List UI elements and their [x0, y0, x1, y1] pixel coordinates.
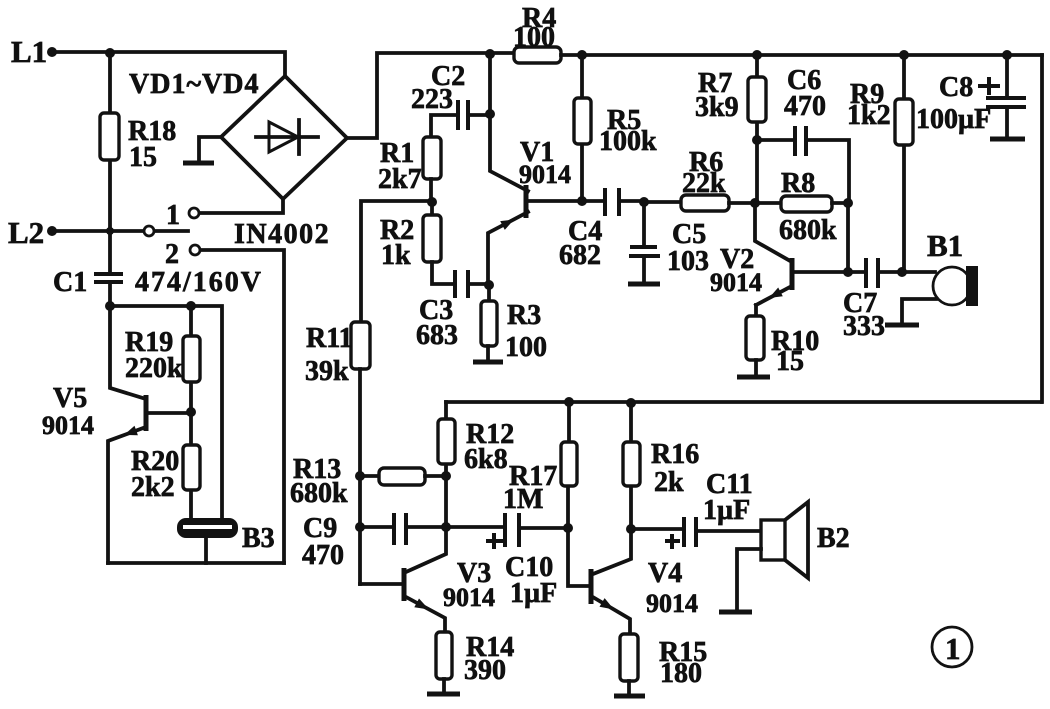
transistor V3	[360, 527, 446, 632]
svg-text:2k2: 2k2	[131, 472, 175, 503]
svg-text:B2: B2	[817, 523, 850, 554]
svg-text:1µF: 1µF	[703, 495, 750, 526]
node L2 terminal	[47, 226, 143, 236]
svg-text:IN4002: IN4002	[234, 219, 330, 250]
svg-text:V4: V4	[648, 558, 682, 589]
capacitor C6	[757, 126, 849, 203]
svg-text:683: 683	[416, 320, 458, 351]
svg-text:100k: 100k	[599, 126, 657, 157]
svg-text:680k: 680k	[290, 478, 348, 509]
svg-text:L2: L2	[8, 215, 44, 250]
svg-text:1k: 1k	[381, 240, 411, 271]
resistor R5	[574, 55, 591, 206]
resistor R19	[183, 306, 200, 417]
resistor R17	[561, 402, 577, 528]
svg-text:470: 470	[302, 540, 344, 571]
svg-text:100: 100	[513, 22, 555, 53]
bridge rectifier VD1~VD4	[221, 76, 347, 199]
wire R1 node to R11	[361, 201, 432, 322]
svg-text:682: 682	[559, 240, 601, 271]
svg-text:6k8: 6k8	[464, 444, 508, 475]
microphone B1	[885, 266, 978, 325]
resistor R12	[438, 402, 455, 481]
svg-text:9014: 9014	[646, 589, 698, 618]
svg-text:15: 15	[776, 346, 804, 377]
svg-text:3k9: 3k9	[695, 92, 739, 123]
svg-text:2k7: 2k7	[378, 164, 422, 195]
svg-text:9014: 9014	[443, 583, 495, 612]
resistor R8	[755, 196, 853, 272]
svg-text:L1: L1	[11, 34, 47, 69]
resistor R18	[100, 53, 119, 272]
wire right border	[1040, 55, 1044, 402]
svg-text:333: 333	[843, 311, 885, 342]
svg-text:2: 2	[165, 239, 179, 270]
svg-text:220k: 220k	[125, 353, 183, 384]
svg-text:15: 15	[129, 142, 157, 173]
svg-text:39k: 39k	[305, 356, 349, 387]
svg-text:22k: 22k	[682, 168, 726, 199]
svg-text:VD1~VD4: VD1~VD4	[129, 69, 259, 100]
resistor R6	[644, 195, 760, 211]
resistor R10	[737, 305, 770, 377]
svg-text:V5: V5	[53, 383, 87, 414]
svg-text:103: 103	[667, 246, 709, 277]
svg-text:R11: R11	[306, 323, 353, 354]
wire bridge left stub to ground	[183, 137, 221, 163]
svg-text:100µF: 100µF	[916, 104, 991, 135]
capacitor C8	[978, 55, 1026, 139]
switch contact 1	[189, 199, 283, 218]
svg-text:R8: R8	[781, 168, 815, 199]
transistor V1	[488, 185, 582, 285]
svg-text:100: 100	[505, 332, 547, 363]
svg-text:680k: 680k	[779, 215, 837, 246]
transistor V5	[108, 306, 191, 563]
resistor R16	[623, 403, 640, 534]
svg-text:223: 223	[411, 84, 453, 115]
transistor V4	[568, 528, 631, 634]
switch contact 2	[190, 245, 284, 563]
capacitor C4	[582, 188, 649, 216]
svg-text:474/160V: 474/160V	[135, 267, 263, 298]
svg-text:1M: 1M	[503, 484, 543, 515]
speaker B2	[719, 502, 808, 612]
svg-text:180: 180	[660, 658, 702, 689]
svg-text:390: 390	[464, 655, 506, 686]
capacitor C10	[446, 513, 573, 549]
svg-text:1k2: 1k2	[847, 100, 891, 131]
wire bottom rail left section	[108, 561, 284, 565]
svg-text:1: 1	[945, 631, 961, 666]
svg-text:R16: R16	[651, 439, 699, 470]
wire node to B3 right	[110, 301, 222, 518]
resistor R11	[351, 322, 370, 584]
svg-text:9014: 9014	[519, 160, 571, 189]
wire bridge output to top rail	[347, 53, 514, 138]
transistor V2	[755, 203, 853, 305]
wire collector feed V1	[490, 54, 528, 191]
svg-text:C1: C1	[53, 267, 87, 298]
capacitor C3	[455, 270, 494, 298]
wire lower supply rail	[446, 397, 1041, 408]
svg-text:9014: 9014	[42, 411, 94, 440]
wire R12 node to C9 node	[444, 476, 448, 527]
capacitor C11	[631, 517, 761, 549]
capacitor C1	[94, 274, 123, 311]
resistor R14	[427, 632, 460, 694]
resistor R9	[895, 55, 913, 272]
capacitor C9	[360, 513, 451, 545]
svg-text:2k: 2k	[654, 467, 684, 498]
svg-text:C8: C8	[939, 72, 973, 103]
svg-text:1µF: 1µF	[510, 578, 557, 609]
capacitor C5	[628, 202, 660, 284]
resistor R15	[614, 634, 645, 696]
capacitor C2	[431, 100, 495, 137]
resistor R4	[485, 47, 1042, 63]
svg-text:R3: R3	[507, 300, 541, 331]
svg-text:1: 1	[166, 200, 180, 231]
svg-text:470: 470	[784, 91, 826, 122]
resistor R20	[183, 412, 200, 518]
svg-text:B1: B1	[927, 228, 963, 263]
figure number 1	[932, 627, 972, 667]
svg-text:B3: B3	[242, 523, 275, 554]
transducer B3	[177, 518, 238, 563]
capacitor C7	[848, 258, 907, 288]
resistor R3	[473, 285, 503, 362]
svg-text:9014: 9014	[710, 268, 762, 297]
wire L1 top rail	[47, 47, 285, 76]
resistor R13	[360, 468, 446, 485]
resistor R1	[423, 137, 441, 207]
resistor R2	[423, 202, 455, 284]
switch pole	[144, 226, 188, 236]
resistor R7	[748, 55, 766, 203]
